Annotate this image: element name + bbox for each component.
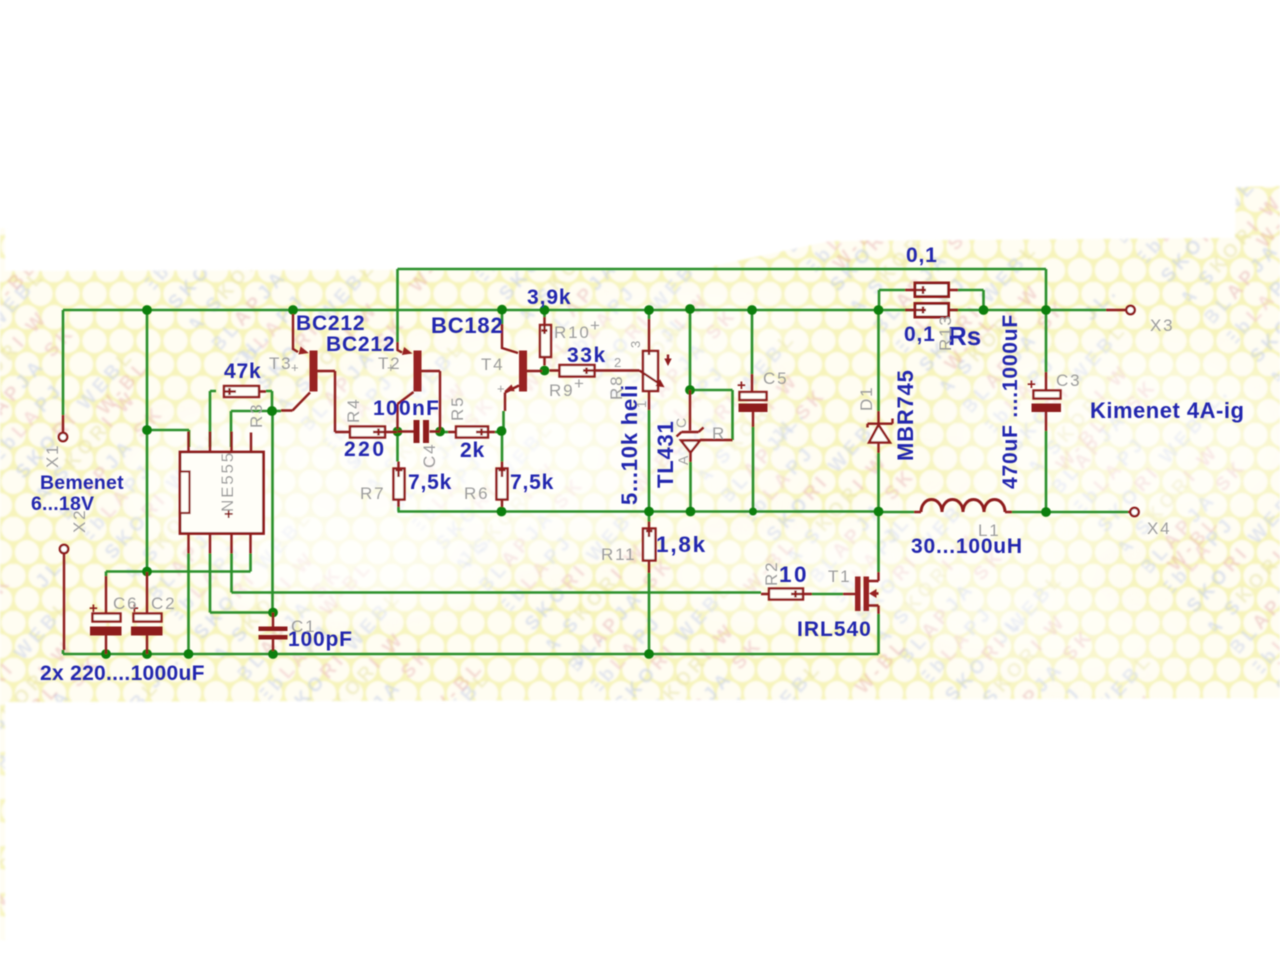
- node C1 top: [268, 608, 278, 618]
- svg-text:R13: R13: [936, 314, 955, 351]
- svg-text:2k: 2k: [460, 439, 485, 462]
- node bus R10: [540, 305, 550, 315]
- node R4/C4: [393, 427, 403, 437]
- svg-text:+: +: [497, 381, 505, 396]
- svg-text:+: +: [590, 316, 602, 335]
- wire R7 top: [396, 434, 399, 462]
- svg-text:X4: X4: [1147, 519, 1171, 538]
- wire T3 collector link: [272, 410, 281, 413]
- svg-text:R9: R9: [549, 381, 574, 400]
- wire T2 emitter drop: [396, 269, 399, 342]
- svg-text:+: +: [89, 600, 98, 617]
- svg-text:IRL540: IRL540: [797, 618, 872, 641]
- svg-text:1,8k: 1,8k: [656, 532, 707, 557]
- wire NE555 pinD to reset rail: [106, 554, 251, 572]
- node gnd TL431: [686, 507, 696, 517]
- svg-text:R5: R5: [448, 396, 467, 421]
- wire D1 anode to node: [877, 453, 880, 512]
- capacitor C5: [737, 374, 768, 427]
- pin stubs top: [189, 432, 252, 453]
- svg-text:220: 220: [344, 438, 387, 461]
- wire C5 bottom drop: [752, 427, 755, 512]
- svg-text:33k: 33k: [567, 344, 607, 367]
- node R3/555 link: [142, 425, 152, 435]
- node R10/R9: [540, 366, 550, 376]
- resistor R2 10: [761, 589, 812, 600]
- svg-text:3: 3: [628, 341, 643, 348]
- svg-text:+: +: [291, 360, 299, 375]
- wire R10 top stub: [543, 310, 546, 317]
- wire NE555 pinA to ground: [187, 554, 190, 655]
- wire R6 top: [501, 433, 504, 462]
- wire TL431 ref loop: [690, 390, 733, 440]
- svg-text:R4: R4: [344, 398, 363, 423]
- wire NE555 out to R2 y=592.5: [232, 554, 762, 593]
- node D1/L1/drain: [874, 507, 884, 517]
- node TL431 ref: [685, 385, 695, 395]
- svg-text:T3: T3: [269, 354, 292, 373]
- svg-text:Bemenet: Bemenet: [40, 472, 124, 494]
- svg-text:0,1: 0,1: [904, 323, 936, 346]
- svg-text:R11: R11: [601, 545, 636, 564]
- svg-text:Kimenet 4A-ig: Kimenet 4A-ig: [1090, 398, 1244, 423]
- node bus T3e: [288, 305, 298, 315]
- svg-text:30...100uH: 30...100uH: [911, 535, 1023, 558]
- svg-text:+: +: [737, 377, 746, 394]
- svg-text:X2: X2: [70, 509, 89, 533]
- svg-text:C1: C1: [291, 617, 316, 636]
- svg-text:1: 1: [634, 401, 649, 408]
- wire IRL540 source drop: [877, 614, 880, 654]
- svg-text:C5: C5: [763, 369, 788, 388]
- wire R8 top stub: [648, 310, 651, 319]
- inductor L1: [914, 500, 1012, 513]
- node bus x147: [142, 305, 152, 315]
- capacitor C1 100pF: [259, 613, 288, 652]
- resistor R3 47k: [224, 386, 266, 397]
- svg-text:R7: R7: [360, 484, 385, 503]
- svg-text:X1: X1: [43, 444, 62, 468]
- wire R5 left link: [440, 431, 448, 434]
- IC U1 NE555 box: [180, 432, 264, 554]
- node gnd R6: [497, 507, 507, 517]
- svg-text:7,5k: 7,5k: [510, 471, 554, 494]
- svg-text:BC212: BC212: [326, 333, 395, 356]
- wire NE555 pinB to C1: [210, 554, 273, 613]
- svg-text:C2: C2: [151, 594, 176, 613]
- transistor T3 BC212: [281, 314, 335, 432]
- resistor R5 2k: [448, 427, 495, 438]
- wire D1 top riser: [877, 310, 880, 411]
- wire ground bus y=654: [63, 650, 879, 654]
- svg-text:A: A: [675, 454, 691, 465]
- capacitor C6: [89, 576, 122, 654]
- node gnd R11: [644, 649, 654, 659]
- wire node 411 to NE555: [231, 411, 272, 447]
- svg-text:+: +: [574, 374, 586, 393]
- node bus C3: [1041, 305, 1051, 315]
- node gnd C1: [268, 649, 278, 659]
- node gnd C6: [101, 649, 111, 659]
- wire Rs left riser: [879, 290, 905, 310]
- svg-text:10: 10: [779, 562, 809, 587]
- wire X1 riser: [62, 310, 65, 415]
- wire R11 bottom: [648, 573, 651, 654]
- svg-text:C: C: [673, 416, 689, 428]
- wire C5 top riser: [751, 310, 754, 374]
- node bus TL431: [685, 304, 695, 314]
- svg-text:NE555: NE555: [218, 451, 237, 512]
- terminal X1: [59, 415, 67, 441]
- resistor R9 33k: [550, 365, 640, 377]
- wire L1 left link: [879, 510, 915, 513]
- svg-text:100nF: 100nF: [373, 397, 440, 420]
- svg-text:T4: T4: [481, 355, 504, 374]
- terminal X3: [1106, 306, 1135, 314]
- mosfet T1 IRL540: [843, 572, 879, 614]
- resistor R7 7.5k: [394, 462, 405, 508]
- node T3 collector: [267, 406, 277, 416]
- wire C3 riser: [1045, 310, 1048, 372]
- wire T4 emitter lower: [502, 411, 505, 430]
- wire IRL540 drain riser: [877, 512, 880, 573]
- wire L1 right to X4: [1012, 511, 1128, 514]
- wire T4 collector stub: [501, 310, 504, 324]
- svg-text:MBR745: MBR745: [893, 369, 918, 461]
- wire R3 right riser: [266, 391, 272, 411]
- wire R6 bottom: [501, 507, 504, 512]
- svg-text:BC212: BC212: [296, 312, 365, 335]
- svg-text:R: R: [712, 424, 726, 443]
- wire R3 left to NE555: [210, 391, 216, 447]
- wire Rs right riser: [958, 290, 984, 310]
- watermark band: [0, 186, 1280, 940]
- svg-text:R6: R6: [464, 484, 489, 503]
- wire TL431 cathode riser: [689, 310, 692, 390]
- wire R7 bottom corner: [397, 507, 400, 512]
- node bus R8: [644, 305, 654, 315]
- diode D1 MBR745: [868, 411, 893, 453]
- svg-text:R3: R3: [247, 403, 266, 428]
- wire C6 cap lead top: [105, 572, 108, 577]
- node gnd R8: [644, 507, 654, 517]
- node bus D1: [874, 305, 884, 315]
- node L1/C3/X4: [1041, 507, 1051, 517]
- wire vertical x=147: [146, 310, 149, 572]
- node C4/R5: [435, 427, 445, 437]
- svg-text:7,5k: 7,5k: [408, 471, 452, 494]
- wire T3 area long drop x=273: [271, 411, 274, 613]
- svg-text:C3: C3: [1056, 371, 1081, 390]
- svg-text:3,9k: 3,9k: [527, 286, 571, 309]
- node bus Rs right: [979, 305, 989, 315]
- svg-text:47k: 47k: [224, 360, 261, 383]
- terminal X2: [60, 545, 68, 650]
- svg-text:BC182: BC182: [431, 313, 503, 338]
- wire NE555 pin A top link: [147, 430, 189, 447]
- svg-text:T1: T1: [828, 567, 851, 586]
- node Vcc/C6C2 rail: [142, 567, 152, 577]
- resistor R4 220: [335, 427, 397, 438]
- wire C3 bottom drop: [1045, 431, 1048, 512]
- potentiometer R8 5..10k: [640, 319, 672, 410]
- svg-text:0,1: 0,1: [906, 244, 938, 267]
- wire R8 bottom riser: [648, 410, 651, 512]
- resistor R11 1.8k: [643, 522, 656, 574]
- wire TL431 anode lower: [689, 462, 692, 512]
- capacitor C3: [1027, 372, 1061, 431]
- terminal X4: [1128, 508, 1139, 516]
- capacitor C2: [130, 572, 163, 654]
- svg-text:D1: D1: [857, 386, 876, 411]
- node gnd 555: [184, 649, 194, 659]
- svg-text:+: +: [1027, 376, 1036, 393]
- svg-text:R8: R8: [607, 375, 626, 400]
- resistor R10 3.9k: [540, 317, 551, 366]
- node bus T4c: [497, 305, 507, 315]
- svg-text:R2: R2: [762, 561, 781, 586]
- node gnd C2: [142, 649, 152, 659]
- resistor R6 7.5k: [497, 462, 508, 508]
- svg-text:X3: X3: [1150, 316, 1174, 335]
- svg-text:470uF ....1000uF: 470uF ....1000uF: [999, 314, 1022, 489]
- wire main V+ bus y=310: [63, 309, 1106, 312]
- wire R2 to gate: [812, 593, 843, 596]
- pin stubs bottom: [189, 534, 251, 554]
- capacitor C4 100nF: [398, 420, 441, 443]
- node bus C5: [747, 305, 757, 315]
- wire ground mid y=511.5: [398, 510, 879, 513]
- wire R11 top: [648, 512, 651, 522]
- svg-text:C4: C4: [420, 443, 439, 468]
- shunt TL431: [677, 390, 733, 462]
- transistor T4 BC182: [502, 324, 542, 411]
- svg-text:R10: R10: [554, 323, 591, 342]
- node T4e/R5/R6: [497, 426, 507, 436]
- svg-text:2: 2: [614, 355, 621, 370]
- svg-text:2x 220....1000uF: 2x 220....1000uF: [40, 662, 205, 685]
- resistor Rs lower 0.1: [905, 304, 958, 318]
- svg-text:L1: L1: [978, 521, 1001, 540]
- wire R5 right link: [495, 431, 502, 434]
- node gnd C5: [749, 508, 757, 516]
- resistor Rs upper 0.1: [905, 283, 958, 297]
- svg-text:+: +: [387, 360, 395, 375]
- wire feedback top y=269: [398, 268, 1047, 271]
- svg-text:C6: C6: [113, 594, 138, 613]
- transistor T2 BC212: [398, 342, 441, 430]
- wire feedback right drop to bus: [1045, 269, 1048, 310]
